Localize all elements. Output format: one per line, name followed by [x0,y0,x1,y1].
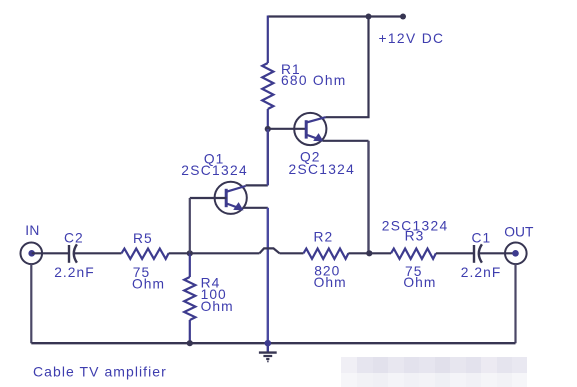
svg-text:2SC1324: 2SC1324 [181,163,248,178]
svg-text:2.2nF: 2.2nF [461,265,502,280]
resistor R2 [304,249,349,259]
node junction R1 / Q1 collector / Q2 base [265,126,271,132]
node junction R5 / R4 / Q1 base [187,250,193,256]
svg-text:+12V DC: +12V DC [379,31,445,46]
capacitor C2 [69,244,77,262]
wire IN shield to ground rail [30,264,32,343]
resistor R4 [184,277,195,320]
wire R4 bottom lead [189,320,191,343]
svg-text:R2: R2 [314,229,334,244]
wire Q1 emitter down to ground rail [243,207,268,209]
ground [259,343,277,361]
svg-text:2SC1324: 2SC1324 [289,162,356,177]
wire C2 to R5 [74,252,122,254]
wire Q2 collector to top rail [326,17,369,118]
svg-text:C2: C2 [64,230,84,245]
wire R2 to node [348,252,369,254]
watermark mosaic block [341,357,527,387]
wire C1 to OUT [479,252,516,254]
wire R5 to node [169,252,190,254]
wire Q1 base [190,197,227,199]
wire Q2 emitter down to R2/R3 node [323,140,369,142]
connector OUT [505,243,527,265]
resistor R3 [391,249,436,259]
svg-text:R3: R3 [405,229,425,244]
wire OUT shield to ground rail [514,264,516,343]
svg-text:2.2nF: 2.2nF [54,265,95,280]
svg-text:Ohm: Ohm [132,277,165,292]
svg-text:Ohm: Ohm [201,299,234,314]
wire top rail [268,15,403,17]
wire node to hop [190,252,260,254]
svg-text:Ohm: Ohm [403,275,436,290]
wire R1 top lead [267,16,269,64]
wire node to Q1 base riser [189,198,191,253]
node junction ground rail / ground symbol [265,340,272,347]
wire R1 bottom lead [267,109,269,129]
node junction top rail / Q2 collector riser [366,14,372,20]
transistor Q1 [215,182,247,214]
resistor R5 [122,249,169,259]
resistor R1 [262,63,273,109]
svg-text:680 Ohm: 680 Ohm [281,73,347,88]
node +12V supply terminal [400,14,406,20]
transistor Q2 [294,113,326,145]
wire node to R3 [369,252,391,254]
node junction R4 / ground rail [187,340,193,346]
svg-text:R5: R5 [133,231,153,246]
wire hop to R2 [280,252,304,254]
svg-text:IN: IN [25,223,39,238]
connector IN [21,243,43,265]
capacitor C1 [474,244,482,262]
wire crossover hop over emitter line [260,248,280,253]
wire R3 to C1 [436,252,474,254]
svg-text:C1: C1 [472,230,492,245]
wire Q2 base [268,128,307,130]
wire Q1 collector up to node [246,184,268,186]
svg-text:Ohm: Ohm [314,275,347,290]
svg-text:Cable TV amplifier: Cable TV amplifier [33,363,167,379]
wire IN to C2 [32,252,69,254]
wire ground rail bottom [31,342,515,344]
svg-text:OUT: OUT [504,225,534,240]
node junction R2 / R3 / Q2 emitter [366,250,372,256]
wire R4 top lead [189,253,191,277]
